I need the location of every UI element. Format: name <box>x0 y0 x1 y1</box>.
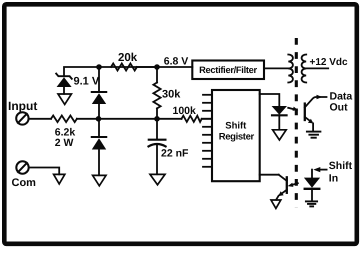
terminal Input <box>16 112 28 124</box>
pins <box>203 94 212 96</box>
transformer T1 <box>288 55 306 83</box>
ground (diode column) <box>93 175 106 185</box>
wire top rail <box>64 67 192 76</box>
wire input to 6.2k <box>29 118 51 120</box>
wire U1 to shift-in phototransistor <box>260 174 279 176</box>
node D junction dot <box>154 116 160 122</box>
terminal Com <box>16 161 28 173</box>
IC U1 shift register <box>203 90 260 181</box>
wire 20k to node C <box>137 66 157 68</box>
svg-text:In: In <box>329 173 338 185</box>
ground (data out emitter, tapered) <box>307 132 321 138</box>
svg-text:9.1 V: 9.1 V <box>74 75 100 87</box>
node C junction dot <box>154 64 160 70</box>
ground (Com) <box>54 174 65 184</box>
resistor R1 6.2k 2W <box>51 116 77 123</box>
resistor R3 30k (vertical) <box>153 67 160 119</box>
node B junction dot (top rail / diode column) <box>96 64 102 70</box>
svg-text:2 W: 2 W <box>55 137 74 149</box>
svg-text:Input: Input <box>8 99 37 113</box>
ground (data out LED) <box>273 130 287 140</box>
light arrow (shift in) <box>288 183 298 187</box>
svg-text:30k: 30k <box>162 88 181 100</box>
svg-text:6.8 V: 6.8 V <box>164 55 189 67</box>
svg-text:+12 Vdc: +12 Vdc <box>310 57 349 68</box>
svg-text:Register: Register <box>219 132 255 143</box>
ground (capacitor) <box>150 174 165 184</box>
ground (shift in LED, tapered) <box>306 201 317 206</box>
light arrow (data out) <box>288 107 298 111</box>
node A junction dot <box>96 116 102 122</box>
diode D2 (lower clamp) <box>92 119 106 175</box>
wire box to transformer <box>264 67 288 69</box>
phototransistor Q1 (data out) <box>305 95 327 132</box>
svg-text:Shift: Shift <box>329 160 353 172</box>
isolation barrier (dashed line) <box>295 38 298 207</box>
svg-text:Shift: Shift <box>225 121 247 132</box>
wire 100k to U1 pin <box>202 118 212 120</box>
diode D1 (upper clamp) <box>92 92 106 119</box>
zener diode D3 9.1V <box>56 74 72 94</box>
wire +12 Vdc <box>306 67 328 69</box>
LED D5 (shift in) <box>304 170 320 201</box>
svg-text:Rectifier/Filter: Rectifier/Filter <box>199 65 257 75</box>
wire 6.2k to node A <box>77 118 99 120</box>
ground (zener) <box>58 94 71 104</box>
svg-text:100k: 100k <box>173 105 197 117</box>
svg-text:20k: 20k <box>118 52 138 64</box>
box Rectifier/Filter <box>192 61 264 80</box>
resistor R4 100k <box>182 116 202 122</box>
wire node B down to diode D1 <box>98 67 100 92</box>
svg-text:Com: Com <box>12 177 37 189</box>
wire Com to ground <box>29 168 59 175</box>
capacitor C1 22nF <box>149 119 166 174</box>
wire node D to 100k <box>157 118 182 120</box>
svg-text:Out: Out <box>330 101 349 113</box>
svg-text:22 nF: 22 nF <box>161 148 189 160</box>
wire U1 to data-out LED <box>260 94 280 106</box>
ground (shift in emitter) <box>271 200 281 208</box>
LED D4 (optocoupler data out) <box>272 106 287 130</box>
wire node A to node D <box>99 118 158 120</box>
arrow Shift In <box>313 167 326 172</box>
phototransistor Q2 (shift in) <box>276 175 287 200</box>
resistor R2 20k <box>111 64 137 71</box>
